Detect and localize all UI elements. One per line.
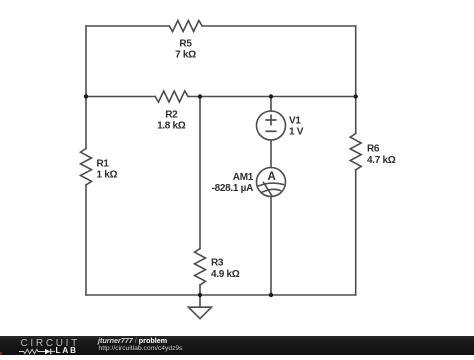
wire R3 branch — [199, 97, 201, 296]
svg-text:R1: R1 — [97, 158, 110, 169]
ammeter AM1 — [257, 168, 286, 197]
svg-text:R2: R2 — [165, 109, 178, 120]
resistor R6 — [350, 134, 361, 170]
voltage source V1 — [257, 111, 286, 140]
logo mini schematic — [19, 347, 59, 355]
svg-text:4.7 kΩ: 4.7 kΩ — [367, 155, 396, 166]
logo LAB text — [56, 347, 78, 355]
wire top rail — [86, 25, 356, 27]
node second rail R3 junction — [198, 94, 202, 98]
wire left rail — [85, 26, 87, 295]
svg-text:V1: V1 — [289, 116, 301, 127]
resistor R2 — [155, 91, 188, 102]
svg-text:A: A — [267, 171, 275, 183]
footer bar — [0, 336, 474, 356]
svg-text:1.8 kΩ: 1.8 kΩ — [157, 120, 186, 131]
footer title line — [98, 337, 167, 345]
svg-text:1 kΩ: 1 kΩ — [97, 170, 118, 181]
svg-text:7 kΩ: 7 kΩ — [175, 49, 196, 60]
node bottom rail ammeter junction — [269, 293, 273, 297]
wire second rail — [86, 96, 356, 98]
red corner accent — [0, 352, 2, 355]
node second rail right junction — [354, 94, 358, 98]
svg-text:-828.1 µA: -828.1 µA — [212, 183, 253, 194]
resistor R3 — [195, 249, 206, 285]
node second rail V1 junction — [269, 94, 273, 98]
node second rail left junction — [84, 94, 88, 98]
svg-text:1 V: 1 V — [289, 127, 304, 138]
svg-text:AM1: AM1 — [233, 172, 254, 183]
wire bottom rail — [86, 294, 356, 296]
resistor R5 — [169, 21, 202, 32]
node bottom rail ground junction — [198, 293, 202, 297]
ground — [199, 295, 201, 307]
svg-text:R3: R3 — [211, 258, 224, 269]
footer url line — [99, 345, 183, 353]
svg-text:R5: R5 — [179, 39, 192, 50]
wire right rail — [355, 26, 357, 295]
resistor R1 — [81, 149, 92, 185]
wire middle branch — [270, 97, 272, 296]
logo CIRCUIT text — [21, 339, 80, 349]
svg-text:4.9 kΩ: 4.9 kΩ — [211, 269, 240, 280]
svg-text:R6: R6 — [367, 144, 380, 155]
